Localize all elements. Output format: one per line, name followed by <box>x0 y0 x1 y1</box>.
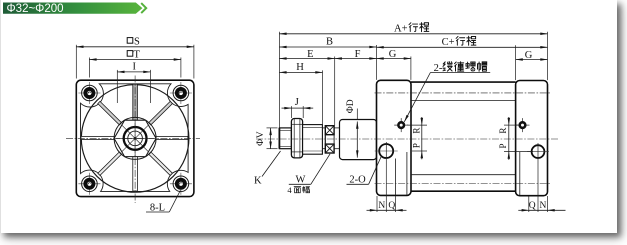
svg-text:Φ32~Φ200: Φ32~Φ200 <box>7 3 64 15</box>
cushion needle bolt at 401.2,125.1 <box>394 124 408 126</box>
tie rod centerline bottom <box>375 183 551 185</box>
web diagonal bottom-right <box>149 152 173 176</box>
dim E line <box>279 58 334 60</box>
rear NQ extensions <box>528 196 530 212</box>
hub radial hatch <box>136 139 149 152</box>
dim H line <box>279 71 322 73</box>
dim I line <box>117 71 150 73</box>
dim squareT line <box>89 59 180 61</box>
rod collar <box>303 125 323 155</box>
leader K <box>262 151 281 177</box>
svg-text:J: J <box>295 97 299 108</box>
svg-text:G: G <box>389 49 397 60</box>
leader 8-L <box>169 191 180 213</box>
tie rod lower tangent top <box>411 100 516 102</box>
hub center dot <box>134 137 137 140</box>
rod nut hexagon <box>114 120 156 156</box>
svg-text:F: F <box>355 49 361 60</box>
dim phiV line <box>270 128 272 149</box>
flange outer square <box>76 80 194 196</box>
banner bar <box>3 3 142 14</box>
svg-text:E: E <box>307 49 313 60</box>
svg-text:B: B <box>326 37 333 48</box>
tie rod upper tangent bottom <box>411 174 516 176</box>
svg-text:N: N <box>378 201 385 211</box>
front PR dim line and arrows <box>421 125 423 151</box>
dim phiD line <box>356 122 358 158</box>
svg-text:W: W <box>296 174 306 185</box>
tie-rod bolt at 180.9,183.8 <box>170 183 192 185</box>
wrench flats box bottom <box>325 144 334 153</box>
dim J extension lines <box>291 106 293 118</box>
web diagonal top-right <box>149 101 173 125</box>
front PR tick lines <box>407 124 427 126</box>
extension line front cap right <box>410 57 412 80</box>
cylinder bore circle <box>81 85 189 193</box>
wrench flats box top <box>325 126 334 135</box>
rod thread section K <box>279 128 291 149</box>
svg-text:S: S <box>134 36 140 47</box>
svg-text:T: T <box>133 49 140 60</box>
svg-text:ΦV: ΦV <box>256 131 266 146</box>
rear PR tick lines <box>504 124 518 126</box>
svg-text:R: R <box>498 128 508 134</box>
piston rod bold circle <box>124 127 147 150</box>
gland block <box>340 120 377 160</box>
dim J arrows <box>282 107 292 109</box>
rod nut <box>291 119 302 158</box>
leader W <box>311 154 330 185</box>
dim squareT label <box>127 51 133 57</box>
rear cap inner line <box>519 152 521 195</box>
dim squareS extension lines <box>75 45 77 79</box>
extension line rod face <box>278 32 280 128</box>
web diagonal top-left <box>98 101 122 125</box>
svg-text:R: R <box>411 128 421 134</box>
port circle at 386.2,151 <box>379 144 393 158</box>
svg-text:N: N <box>539 201 546 211</box>
front view centerline vertical <box>134 76 136 204</box>
extension line collar right <box>322 70 324 124</box>
tube top line <box>411 81 516 83</box>
svg-text:C+: C+ <box>442 37 455 48</box>
main centerline <box>256 138 559 140</box>
web top (shaded) <box>133 84 138 120</box>
svg-text:G: G <box>525 50 533 61</box>
end-cap face plate outline <box>81 84 189 192</box>
wrench flats connecting edges <box>324 135 326 144</box>
front NQ dim line <box>377 209 396 211</box>
web bottom <box>133 156 138 191</box>
svg-text:4: 4 <box>287 185 292 195</box>
banner chevron <box>141 3 146 13</box>
front NQ extensions <box>376 196 378 212</box>
svg-text:K: K <box>254 176 262 187</box>
front cap inner lines <box>395 159 397 196</box>
web diagonal bottom-left <box>98 152 122 176</box>
tie-rod bolt at 89.4,183.8 <box>78 183 100 185</box>
dim F line <box>335 58 377 60</box>
web right <box>156 136 188 139</box>
rod inner circle <box>128 131 143 146</box>
svg-text:I: I <box>133 62 137 73</box>
svg-text:Q: Q <box>388 201 395 211</box>
dim squareT extension lines <box>88 58 90 78</box>
port vertical centerlines / N Q extensions <box>385 142 387 212</box>
svg-text:Q: Q <box>529 201 536 211</box>
dim J line <box>292 107 304 109</box>
dim squareS label <box>127 38 133 44</box>
extension line gland face <box>334 57 336 126</box>
extension line rear cap left <box>515 45 517 80</box>
dim squareS line <box>76 46 194 48</box>
extension line front cap left <box>376 45 378 80</box>
rear cap <box>516 81 548 196</box>
svg-text:ΦD: ΦD <box>346 99 356 113</box>
port circle at 538,151.6 <box>532 145 545 158</box>
dim G front line <box>377 58 411 60</box>
dim C+stroke line <box>377 46 548 48</box>
hub outer circle <box>114 117 156 159</box>
tie-rod bolt at 180.9,93 <box>170 92 192 94</box>
tube bottom line <box>411 190 516 192</box>
rear NQ dim line <box>529 209 548 211</box>
leader 2-O <box>369 157 381 184</box>
tie rod centerline top <box>375 92 551 94</box>
svg-text:A+: A+ <box>394 23 408 34</box>
rear PR dim line and arrows <box>508 125 510 152</box>
rod stub segments <box>322 127 325 129</box>
dim I extension lines <box>116 70 118 103</box>
svg-text:P: P <box>498 143 508 148</box>
cushion needle bolt at 522.5,125.1 <box>516 124 530 126</box>
svg-text:H: H <box>296 62 304 73</box>
dim phiV extensions <box>267 127 278 129</box>
web left <box>81 136 114 139</box>
leader cushion <box>404 73 430 122</box>
svg-text:P: P <box>411 143 421 148</box>
front cap <box>377 80 412 195</box>
extension line rear cap right <box>547 32 549 80</box>
dim A+stroke line <box>279 33 547 35</box>
dim B line <box>279 46 376 48</box>
front view centerline horizontal <box>66 137 200 139</box>
tie-rod bolt at 89.4,93 <box>78 92 100 94</box>
dim G rear line <box>516 59 548 61</box>
